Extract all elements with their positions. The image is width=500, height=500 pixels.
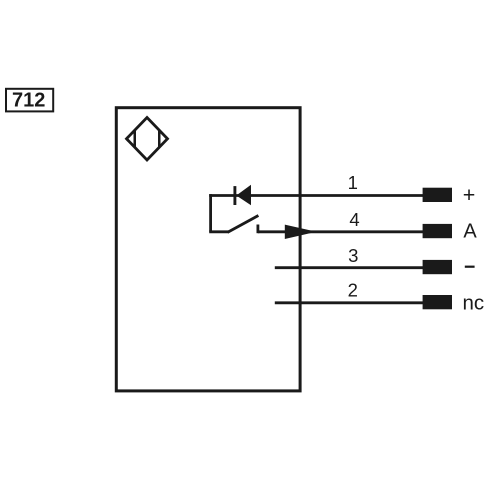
svg-text:4: 4 bbox=[349, 209, 359, 230]
terminal pin 4 bbox=[423, 224, 452, 238]
wire: left bracket vertical bbox=[209, 194, 212, 232]
svg-text:A: A bbox=[463, 220, 477, 242]
wire 1 (+) horizontal bbox=[209, 194, 423, 197]
output arrow on wire 4 bbox=[285, 225, 317, 239]
wire 4 (A) horizontal bbox=[258, 230, 424, 233]
switch fixed contact stub bbox=[256, 225, 259, 234]
svg-text:3: 3 bbox=[348, 245, 358, 266]
switch blade bbox=[228, 216, 259, 233]
wire 3 (-) horizontal bbox=[275, 266, 424, 269]
sensor body outline bbox=[116, 108, 300, 391]
wire 2 (nc) horizontal bbox=[275, 301, 424, 304]
diode D1 triangle bbox=[236, 185, 251, 206]
label - bbox=[465, 266, 475, 268]
svg-text:712: 712 bbox=[12, 89, 45, 111]
terminal pin 3 bbox=[423, 260, 452, 274]
svg-text:+: + bbox=[463, 183, 476, 207]
inductive sensor symbol (diamond) bbox=[127, 118, 168, 161]
terminal pin 2 bbox=[423, 295, 452, 309]
svg-text:1: 1 bbox=[348, 172, 358, 193]
svg-text:2: 2 bbox=[348, 280, 358, 301]
diode D1 cathode bar bbox=[233, 186, 236, 205]
wire: bracket bottom stub to switch bbox=[209, 230, 228, 233]
figure label box 712 bbox=[6, 89, 53, 112]
svg-text:nc: nc bbox=[463, 292, 485, 315]
terminal pin 1 bbox=[423, 188, 452, 202]
